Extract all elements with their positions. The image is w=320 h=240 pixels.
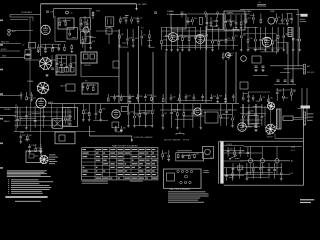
svg-text:DIAL CORD STRINGING: DIAL CORD STRINGING xyxy=(170,188,191,191)
arrowhead changer xyxy=(131,140,133,143)
tube V5 35W4 rectifier xyxy=(265,124,276,135)
svg-text:150: 150 xyxy=(235,36,238,38)
grid cathode parts row xyxy=(37,44,73,53)
coil L3 xyxy=(83,27,89,33)
speaker note lines xyxy=(300,19,307,22)
terminal strip label xyxy=(177,149,192,152)
svg-text:PHONO: PHONO xyxy=(84,65,91,67)
bracket record changer xyxy=(176,132,184,136)
wire audio row y120.8 xyxy=(14,120,72,122)
wire AF bus xyxy=(14,131,95,133)
wire loop turn 3 xyxy=(10,19,28,21)
wire gang ground lead xyxy=(40,108,42,150)
wire voice coil 1 xyxy=(293,116,303,118)
output transformer T6 xyxy=(277,109,282,129)
wire jack down xyxy=(80,63,82,77)
padder box 3 xyxy=(25,55,32,59)
antenna terminal 1 xyxy=(8,29,11,32)
svg-text:5%: 5% xyxy=(279,91,282,93)
footer product line xyxy=(5,196,47,198)
arrowhead B+ xyxy=(135,8,137,11)
ground C14 xyxy=(254,69,257,72)
wire vertical bus 3 xyxy=(138,26,140,103)
AVC filter box xyxy=(113,61,119,68)
AVC parts xyxy=(118,29,138,47)
tube V3 12AT6 detector xyxy=(262,37,272,47)
svg-text:150: 150 xyxy=(191,154,194,156)
heater symbol 3 xyxy=(275,159,279,163)
padder box 2 xyxy=(25,50,31,55)
wire L4 tap xyxy=(51,55,53,64)
svg-text:150: 150 xyxy=(255,167,258,169)
svg-text:220: 220 xyxy=(50,12,53,14)
wire heater row xyxy=(276,89,296,91)
wire frame vertical xyxy=(303,108,305,141)
junction osc xyxy=(52,47,54,49)
wire spkr lead 2 xyxy=(306,88,308,119)
dial cord stringing box xyxy=(164,169,202,188)
feedback network box xyxy=(205,112,218,123)
wire transformer primary xyxy=(218,141,220,183)
svg-text:5%: 5% xyxy=(143,35,146,37)
resistor R20 xyxy=(238,166,243,170)
tone network parts xyxy=(16,106,45,129)
edge mark 6 xyxy=(0,143,3,145)
capacitor C3 xyxy=(46,11,49,12)
svg-text:.05: .05 xyxy=(70,13,73,15)
trimmer box xyxy=(67,28,78,40)
IF grid parts xyxy=(186,17,197,25)
wire loop return long xyxy=(29,17,31,96)
jack contact 1 xyxy=(84,54,89,59)
tube V3 triode section xyxy=(36,98,46,108)
antenna terminal 2 xyxy=(8,33,11,36)
T2 internals xyxy=(59,19,71,26)
wire det row B xyxy=(248,47,284,49)
tube V4 top xyxy=(268,17,275,24)
svg-text:5%: 5% xyxy=(278,17,281,19)
wire record changer xyxy=(89,135,132,137)
wire phono stub xyxy=(0,107,16,109)
svg-text:.1: .1 xyxy=(276,168,278,170)
wire osc return xyxy=(25,59,42,61)
cap labels row xyxy=(125,14,129,17)
wire jack across xyxy=(81,76,119,78)
tone switch cross xyxy=(54,120,62,128)
svg-text:220: 220 xyxy=(270,98,273,100)
selenium rectifier CR1 xyxy=(252,56,261,63)
svg-text:12BE6: 12BE6 xyxy=(227,13,234,15)
wire filament bus 3 xyxy=(240,160,290,162)
filter choke box xyxy=(248,116,258,125)
tube V1 socket view xyxy=(39,57,52,70)
detector right parts xyxy=(292,27,301,51)
volume pot parts xyxy=(20,92,36,101)
wire vertical bus 8 xyxy=(225,60,227,103)
wire audio vertical xyxy=(51,104,53,128)
coupling cap box xyxy=(121,107,127,112)
feedthrough bead xyxy=(66,11,69,14)
svg-text:BCAST: BCAST xyxy=(1,48,7,51)
L4 padder squares xyxy=(59,68,74,73)
wire loop top xyxy=(10,14,41,16)
R15 lower parts xyxy=(242,92,250,102)
wire phono gnd xyxy=(280,71,290,73)
phone jack detail box xyxy=(26,151,41,163)
resistor R4 body xyxy=(92,13,94,16)
wire heater drop 2 xyxy=(261,146,263,158)
tube V2 shield xyxy=(196,35,205,44)
power transformer T7 core xyxy=(220,142,223,184)
wire vertical bus 1 xyxy=(118,30,120,103)
svg-text:330: 330 xyxy=(212,21,215,23)
terminal strip internals xyxy=(177,153,200,158)
svg-text:.05: .05 xyxy=(139,18,142,20)
wire det row A xyxy=(243,33,276,35)
transformer T5 xyxy=(82,83,98,94)
wire output row xyxy=(160,109,237,111)
wire det box bottom xyxy=(277,41,287,43)
padder box 1 xyxy=(29,43,36,49)
oscillator coil T2 xyxy=(58,18,74,29)
wire transformer tap 1 xyxy=(224,144,244,146)
svg-text:330: 330 xyxy=(194,18,197,20)
capacitor C14 xyxy=(255,66,258,67)
edge mark 7 xyxy=(0,167,3,169)
output top parts xyxy=(276,14,294,26)
svg-text:BAND SW: BAND SW xyxy=(1,41,9,44)
AC plug circle xyxy=(205,149,211,155)
terminal strip rungs xyxy=(303,67,305,72)
wire filament bus 2 xyxy=(224,152,262,154)
tube V6 driver xyxy=(112,110,120,118)
capacitor C24 xyxy=(255,126,258,127)
label plate TO SPKR xyxy=(300,14,307,17)
wire audio vertical xyxy=(30,100,32,132)
svg-text:12BE6: 12BE6 xyxy=(27,81,34,83)
wire L3 down xyxy=(85,33,87,42)
capacitor C13 xyxy=(51,68,54,69)
voltage table xyxy=(82,148,158,180)
wire audio vertical xyxy=(19,108,21,126)
wire ant to coil xyxy=(10,30,33,32)
AC plug box xyxy=(203,146,214,158)
trimmer parts xyxy=(69,29,76,38)
wire loop bottom xyxy=(10,16,33,18)
svg-text:C5: C5 xyxy=(22,45,24,47)
power box lower parts xyxy=(232,163,283,180)
wire R4 lead xyxy=(92,11,94,19)
plug caption xyxy=(203,170,209,173)
svg-text:TUBE SOCKET VOLTAGES: TUBE SOCKET VOLTAGES xyxy=(112,145,139,148)
ground C24 xyxy=(254,129,257,132)
wire gnd terminal xyxy=(284,68,304,70)
tube V7 ballast xyxy=(238,123,247,132)
wire transformer tap 2 xyxy=(224,150,244,152)
svg-text:2.2M: 2.2M xyxy=(243,21,247,23)
svg-text:5%: 5% xyxy=(85,110,88,112)
edge mark 1 xyxy=(0,20,3,22)
jack contact 2 xyxy=(90,54,95,59)
wire screen drop left xyxy=(52,9,54,18)
svg-text:.01: .01 xyxy=(258,2,261,4)
footer printed line xyxy=(15,201,41,202)
dial drum xyxy=(167,173,175,181)
resistor block R15 xyxy=(240,82,248,89)
tube V5 socket top xyxy=(267,102,275,110)
heater symbol 1 xyxy=(249,159,253,163)
wire grid line left xyxy=(40,4,42,24)
feedthrough tick xyxy=(204,12,206,18)
jack symbol inside xyxy=(29,154,39,158)
alignment steps list xyxy=(8,179,53,193)
svg-text:12AT6: 12AT6 xyxy=(48,101,53,104)
edge mark 4 xyxy=(0,93,3,95)
mixer parts xyxy=(82,36,96,49)
wire phono feed xyxy=(84,16,86,52)
wire audio row y112 xyxy=(14,111,72,113)
svg-text:PHONO: PHONO xyxy=(4,109,11,111)
svg-text:2.2M: 2.2M xyxy=(147,95,151,97)
wire right drop xyxy=(297,9,299,66)
capacitor block C7 xyxy=(105,17,114,26)
IF trimmer box xyxy=(66,84,75,91)
svg-text:.05: .05 xyxy=(274,40,277,42)
L4 internals xyxy=(56,56,77,73)
T3 internals xyxy=(80,19,88,28)
wire detector bus xyxy=(240,8,298,10)
wire speaker stub xyxy=(296,14,300,16)
wire osc link xyxy=(55,41,66,43)
wire audio row y107.7 xyxy=(14,107,72,109)
capacitor row C20 C21 C22 xyxy=(277,80,294,81)
jack legend xyxy=(49,155,58,165)
output coupling parts xyxy=(252,95,272,103)
wire frame stub xyxy=(298,107,304,109)
tube socket starburst V1 xyxy=(37,82,50,95)
wire into L4 xyxy=(42,59,56,61)
heater symbol 2 xyxy=(260,159,264,163)
volume control box xyxy=(63,108,78,127)
wire vertical bus 2 xyxy=(127,52,129,103)
ground gang xyxy=(39,150,42,153)
wire IF row A xyxy=(161,30,240,32)
svg-text:RECORD CHANGER: RECORD CHANGER xyxy=(164,139,181,142)
wire band stub 2 xyxy=(0,50,20,52)
svg-text:150: 150 xyxy=(242,151,245,153)
line cord parts xyxy=(225,168,233,181)
wire radio stub xyxy=(0,115,16,117)
wire spkr lead 1 xyxy=(301,88,303,117)
svg-text:DIAL: DIAL xyxy=(20,131,24,134)
wire audio vertical xyxy=(74,104,76,120)
svg-text:35W4GT: 35W4GT xyxy=(267,136,274,138)
jack wiring starburst xyxy=(39,155,48,164)
svg-text:330: 330 xyxy=(136,115,139,117)
wire ground lead xyxy=(0,57,25,59)
capacitor C11 xyxy=(257,5,266,6)
IF can T4b xyxy=(207,14,223,30)
svg-text:2.2M: 2.2M xyxy=(31,145,35,147)
IF transformer T3 xyxy=(80,18,90,30)
wire audio vertical xyxy=(67,108,69,126)
tone switch box xyxy=(53,119,63,129)
converter box internals xyxy=(224,15,247,29)
capacitor C12 xyxy=(27,54,30,55)
tube V2 12BA6 IF amp xyxy=(169,33,178,42)
C7 internals xyxy=(108,19,112,25)
wire grid line xyxy=(40,24,42,56)
driver stage parts xyxy=(127,104,155,127)
converter shield box xyxy=(224,11,245,30)
svg-text:.01: .01 xyxy=(263,115,266,117)
wire filament bus 4 xyxy=(224,167,282,169)
svg-text:B+ 105V: B+ 105V xyxy=(139,4,148,6)
rectifier section parts xyxy=(242,104,266,127)
edge mark 2 xyxy=(0,44,3,46)
wire det box left xyxy=(276,34,278,54)
terminal strip right xyxy=(303,64,305,74)
bias cell box xyxy=(112,122,119,128)
interlock parts xyxy=(115,126,127,132)
terminal strip TB1 xyxy=(176,153,204,161)
IF can T4a xyxy=(171,15,186,30)
svg-text:5%: 5% xyxy=(37,147,40,149)
wire L5 lead 2 xyxy=(292,37,294,85)
plate parts row xyxy=(119,17,142,24)
IF transformer T3 secondary xyxy=(81,32,91,44)
maker name xyxy=(300,199,314,200)
wire det box right xyxy=(286,42,288,54)
svg-text:.001: .001 xyxy=(135,38,139,40)
wire filament bus 1 xyxy=(244,145,302,147)
wire C7 down xyxy=(109,26,111,28)
coil L5 xyxy=(288,28,292,37)
edge mark 5 xyxy=(0,118,3,120)
svg-text:RADIO: RADIO xyxy=(4,120,10,123)
speaker field parts xyxy=(276,88,297,101)
wire loop left xyxy=(9,15,11,18)
tuning gang box xyxy=(55,132,75,144)
power section box outline xyxy=(219,141,304,185)
ground C15 xyxy=(261,69,264,72)
bottom row parts right xyxy=(162,94,234,103)
wire L5 lead 1 xyxy=(287,42,289,85)
dial cord pulleys xyxy=(177,170,193,183)
wire audio vertical xyxy=(15,104,17,132)
switch S1 xyxy=(229,156,237,160)
wire filter link xyxy=(253,75,268,77)
detector parts xyxy=(245,14,262,24)
svg-text:LOOP ANT: LOOP ANT xyxy=(21,11,33,14)
dial lamp parts xyxy=(19,134,32,143)
wire audio row y116.4 xyxy=(14,115,72,117)
svg-text:P1: P1 xyxy=(115,127,117,129)
B+ filter parts xyxy=(220,104,236,127)
wire to power box xyxy=(275,137,304,139)
feedthrough tick xyxy=(217,12,219,18)
decoupling parts xyxy=(82,104,108,121)
wire rect down xyxy=(274,134,276,139)
wire screen bus xyxy=(53,8,92,10)
wire ant terminal xyxy=(270,65,304,67)
svg-text:.02: .02 xyxy=(194,111,197,113)
wire screen bus 2 xyxy=(180,13,250,15)
wire heater drop 3 xyxy=(276,146,278,158)
voltage change notes xyxy=(168,191,209,202)
wire vertical bus 7 xyxy=(205,26,207,103)
svg-text:12AT6: 12AT6 xyxy=(246,10,253,13)
wire transformer tap 4 xyxy=(224,174,244,176)
wire audio vertical xyxy=(62,104,64,128)
tube V1 12BE6 converter xyxy=(41,25,50,34)
wire audio row y125.2 xyxy=(14,124,72,126)
wire IF row B xyxy=(161,45,238,47)
power box upper parts xyxy=(227,147,249,159)
svg-text:150: 150 xyxy=(63,63,66,65)
table footnote left xyxy=(82,181,108,184)
svg-text:MOTOR: MOTOR xyxy=(183,140,190,142)
edge mark 3 xyxy=(0,69,3,71)
pilot lamp I1 xyxy=(226,53,231,58)
mains filter parts xyxy=(162,150,170,161)
speaker box xyxy=(283,116,293,121)
wire mixer link xyxy=(96,30,119,32)
tube V4 50B5 output xyxy=(194,108,201,115)
output stage parts xyxy=(162,104,207,129)
svg-text:.1: .1 xyxy=(154,110,156,112)
gang section xyxy=(59,135,65,141)
speaker terminal labels xyxy=(307,114,314,121)
wire screen drop right xyxy=(89,9,91,18)
svg-text:150: 150 xyxy=(164,153,167,155)
svg-text:5%: 5% xyxy=(227,38,230,40)
wire filament bus 5 xyxy=(224,174,290,176)
speaker terminal ladder xyxy=(303,112,305,125)
neon bulb xyxy=(241,56,247,62)
oscillator coil box L4 xyxy=(56,55,76,75)
wire band stub 1 xyxy=(0,43,21,45)
wire IF row C xyxy=(163,36,206,38)
wire heater return 3 xyxy=(276,163,278,175)
rectifier mesh wires xyxy=(240,104,271,133)
bottom row parts left xyxy=(107,94,157,103)
model number xyxy=(300,202,311,203)
wire audio vertical xyxy=(56,108,58,126)
wire B+ bus xyxy=(41,3,137,5)
T4 parts xyxy=(141,30,155,47)
svg-text:220: 220 xyxy=(262,167,265,169)
svg-text:150: 150 xyxy=(19,118,22,120)
IF cathode parts xyxy=(206,17,219,27)
wire C8 down xyxy=(108,34,110,44)
IF amplifier dense section xyxy=(161,27,238,51)
detector dense section xyxy=(240,27,288,52)
T5 internals xyxy=(82,84,97,91)
wire vertical bus 6 xyxy=(179,52,181,103)
svg-text:POWER: POWER xyxy=(226,144,233,146)
wire heater return 2 xyxy=(261,163,263,175)
capacitor C15 xyxy=(262,66,265,67)
wire osc feed xyxy=(54,16,56,42)
feedthrough tick xyxy=(181,12,183,18)
wire vertical bus 9 xyxy=(235,52,237,103)
capacitor C8 xyxy=(106,28,112,34)
wire vertical bus 5 xyxy=(165,52,167,103)
svg-text:2.2M: 2.2M xyxy=(202,112,206,114)
capacitor C9 xyxy=(154,12,157,13)
wire left stub 2 xyxy=(0,95,20,97)
